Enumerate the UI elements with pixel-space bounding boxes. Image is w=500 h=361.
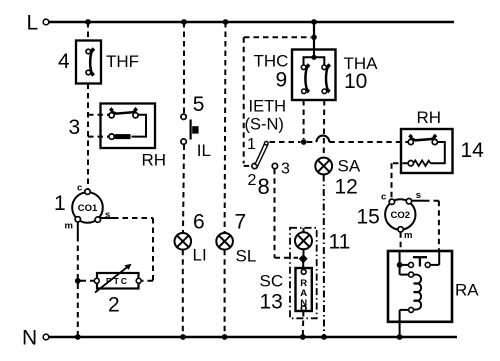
wire node to SC bbox=[302, 261, 304, 269]
wire feed to IETH bbox=[244, 36, 311, 38]
SC bottom terminal bbox=[301, 306, 306, 311]
svg-text:m: m bbox=[65, 221, 73, 232]
lamp 11 bbox=[295, 232, 312, 249]
junction on N rail at CO1 branch bbox=[75, 334, 81, 340]
wire inside thermostat box bbox=[304, 50, 325, 65]
svg-text:6: 6 bbox=[193, 211, 205, 234]
RA contact bbox=[400, 251, 440, 267]
PTC starter (2) bbox=[94, 264, 141, 293]
RA armature bbox=[413, 256, 427, 258]
wire PTC to CO1 m branch bbox=[81, 280, 95, 282]
svg-text:3: 3 bbox=[69, 116, 81, 139]
wire stub to RH relay contact bbox=[88, 114, 109, 116]
wire THA to SA lamp bbox=[323, 100, 326, 158]
switch IL (5) bbox=[181, 114, 199, 144]
IETH terminal 3 bbox=[272, 163, 277, 168]
wire L rail to THF bbox=[87, 22, 89, 41]
wire hop over SA line bbox=[317, 136, 330, 142]
wire lamp 11 to node bbox=[303, 249, 305, 255]
svg-text:SC: SC bbox=[260, 272, 284, 291]
junction on N rail at SL branch bbox=[222, 334, 228, 340]
wire CO2 m to RA bbox=[400, 232, 402, 251]
wire CO2 s to RA bbox=[412, 200, 424, 202]
junction CO1/PTC node bbox=[75, 278, 81, 284]
svg-text:1: 1 bbox=[247, 136, 256, 153]
RA internal wiring left bbox=[399, 251, 401, 265]
thermostat THA contact bbox=[322, 63, 331, 93]
svg-text:IL: IL bbox=[197, 141, 211, 160]
svg-text:8: 8 bbox=[258, 174, 270, 199]
SC top terminal bbox=[301, 269, 306, 274]
wire RH14 to CO2 c bbox=[392, 162, 408, 164]
thermostat unit THC/THA box bbox=[292, 50, 336, 101]
node L (phase rail) bbox=[27, 12, 455, 35]
thermal fuse THF box bbox=[76, 41, 101, 84]
IETH blade bbox=[255, 144, 268, 167]
relay RA box bbox=[388, 251, 452, 322]
svg-text:RH: RH bbox=[417, 108, 442, 127]
wire node to lamp 11 bbox=[303, 228, 305, 232]
svg-text:14: 14 bbox=[461, 139, 485, 162]
junction on N rail at RA branch bbox=[397, 334, 403, 340]
junction on N rail at SA branch bbox=[321, 334, 327, 340]
lamp SA (12) bbox=[315, 158, 332, 175]
RH coil terminal bbox=[109, 134, 114, 139]
wire L rail bbox=[49, 21, 454, 23]
wire THF to CO1 bbox=[87, 84, 89, 190]
RA coil wiring bbox=[399, 265, 401, 275]
junction node lamp11/SC/IETH3 bbox=[299, 254, 308, 263]
svg-text:N: N bbox=[22, 327, 37, 350]
RA coil bbox=[414, 275, 422, 310]
svg-text:m: m bbox=[404, 230, 412, 241]
RH14 contact bbox=[408, 134, 437, 145]
RH contact wiring bbox=[132, 115, 147, 137]
svg-text:THF: THF bbox=[106, 52, 139, 71]
svg-text:RH: RH bbox=[142, 151, 167, 170]
wire L rail to IL switch bbox=[183, 22, 185, 114]
svg-text:SL: SL bbox=[236, 247, 257, 266]
RH coil bbox=[115, 134, 131, 139]
wire CO1 m to N rail bbox=[77, 222, 79, 236]
lamp LI (6) bbox=[175, 233, 192, 250]
IETH pivot terminal bbox=[252, 163, 257, 168]
svg-text:2: 2 bbox=[108, 294, 120, 317]
svg-text:N: N bbox=[300, 298, 307, 309]
pin s of CO2 bbox=[406, 199, 411, 204]
pin c of CO1 bbox=[85, 189, 90, 194]
RA coil top terminal bbox=[409, 272, 414, 277]
junction on L rail at THF branch bbox=[85, 19, 91, 25]
pin m of CO2 bbox=[398, 227, 403, 232]
junction on N rail at LI branch bbox=[180, 334, 186, 340]
heater relay RH (14) box bbox=[401, 129, 453, 173]
junction RA node bbox=[397, 262, 403, 268]
svg-text:2: 2 bbox=[248, 172, 257, 189]
pin c of CO2 bbox=[389, 199, 394, 204]
svg-text:13: 13 bbox=[260, 291, 283, 314]
svg-text:RA: RA bbox=[455, 281, 479, 300]
junction node 1-line / lamp11 bbox=[301, 139, 307, 145]
lamp SL (7) bbox=[216, 233, 233, 250]
wire CO1 s to PTC bbox=[101, 217, 114, 219]
RH14 wiring bbox=[431, 142, 445, 163]
selector switch IETH (8) bbox=[245, 98, 291, 200]
wire L rail to thermostats bbox=[313, 22, 315, 50]
relay RH (3) box bbox=[101, 104, 156, 149]
svg-text:(S-N): (S-N) bbox=[245, 116, 284, 134]
svg-text:CO1: CO1 bbox=[78, 203, 98, 214]
svg-text:s: s bbox=[416, 190, 421, 201]
svg-text:c: c bbox=[381, 192, 386, 203]
svg-text:c: c bbox=[77, 183, 82, 194]
svg-text:5: 5 bbox=[193, 93, 205, 116]
junction on L rail at SL branch bbox=[223, 19, 229, 25]
RA coil bottom terminal bbox=[409, 307, 414, 312]
RH contact bbox=[109, 107, 138, 118]
svg-text:4: 4 bbox=[58, 50, 70, 73]
svg-text:SA: SA bbox=[338, 157, 361, 176]
wire THC to node bbox=[303, 100, 305, 139]
svg-text:CO2: CO2 bbox=[391, 210, 411, 221]
wire N rail bbox=[49, 336, 457, 338]
wire LI to N rail bbox=[182, 250, 184, 337]
pin s of CO1 bbox=[95, 217, 100, 222]
svg-text:IETH: IETH bbox=[249, 98, 287, 116]
svg-text:1: 1 bbox=[54, 192, 66, 215]
junction on L rail at thermostat branch bbox=[311, 19, 317, 25]
wire L rail to SL lamp bbox=[224, 22, 227, 233]
wire IL to LI lamp bbox=[183, 145, 184, 233]
wire SL to N rail bbox=[224, 250, 226, 337]
svg-text:LI: LI bbox=[193, 246, 207, 265]
enclosure for lamp 11 and SC bbox=[290, 228, 317, 318]
motor compressor CO2 bbox=[381, 190, 421, 241]
node N (neutral rail) bbox=[22, 327, 457, 350]
motor compressor CO1 bbox=[65, 183, 111, 232]
junction feed node bbox=[311, 35, 317, 41]
RH14 resistor terminal bbox=[408, 161, 413, 166]
junction on L rail at IL branch bbox=[181, 19, 187, 25]
pin m of CO1 bbox=[75, 217, 80, 222]
svg-text:15: 15 bbox=[357, 206, 380, 229]
svg-text:10: 10 bbox=[344, 70, 367, 93]
wire SC to N rail bbox=[302, 311, 305, 337]
svg-text:9: 9 bbox=[276, 69, 288, 92]
wire stub to RH relay coil bbox=[88, 136, 109, 138]
junction on N rail at SC branch bbox=[300, 334, 306, 340]
N terminal bbox=[43, 334, 49, 340]
THF contact bbox=[86, 47, 95, 76]
RH14 resistor bbox=[414, 160, 431, 166]
svg-text:11: 11 bbox=[329, 231, 351, 254]
wire SA to N rail bbox=[323, 175, 325, 338]
L terminal bbox=[43, 19, 49, 25]
wire IETH terminal3 down bbox=[274, 169, 276, 258]
thermostat THC contact bbox=[301, 63, 310, 93]
svg-text:L: L bbox=[27, 12, 39, 35]
wire IETH pos1 to RH14 bbox=[270, 141, 301, 143]
svg-text:7: 7 bbox=[235, 211, 247, 234]
heater SC (13) box bbox=[296, 268, 312, 311]
svg-text:3: 3 bbox=[281, 161, 290, 178]
svg-text:12: 12 bbox=[335, 176, 358, 199]
